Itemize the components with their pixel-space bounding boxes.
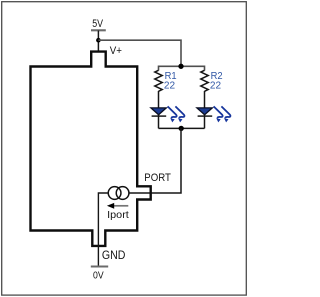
svg-text:0V: 0V	[93, 270, 104, 282]
junction dot at 5V	[96, 38, 101, 43]
LED1 light arrows	[168, 106, 185, 118]
current source U1 (two circles)	[108, 187, 121, 200]
LED2 light arrows	[214, 106, 231, 118]
svg-text:Iport: Iport	[107, 209, 129, 221]
wire 5V node to LED rail (gray net)	[98, 40, 181, 66]
wire LED1 to bottom rail	[158, 115, 160, 129]
LED D2	[197, 108, 212, 116]
ground rail 0V bar	[91, 265, 108, 267]
junction dot top rail	[178, 64, 183, 69]
5V power rail bar	[91, 29, 106, 31]
wire R1 to LED1	[158, 91, 160, 108]
svg-text:PORT: PORT	[144, 172, 171, 184]
svg-text:5V: 5V	[92, 18, 103, 30]
LED D1	[151, 108, 166, 116]
svg-text:V+: V+	[110, 45, 122, 57]
resistor R2	[201, 70, 208, 91]
wire R2 to LED2	[204, 91, 206, 108]
wire current source to GND pin	[98, 193, 108, 266]
Iport arrow	[114, 205, 129, 207]
wire bottom rail to PORT pin	[129, 128, 181, 193]
resistor R1	[155, 70, 162, 91]
wire 5V bar to V+ pin	[97, 31, 99, 52]
wire LED2 to bottom rail	[204, 115, 206, 129]
svg-text:22: 22	[210, 80, 221, 92]
junction dot bottom rail	[179, 126, 184, 131]
wire top rail of R1/R2	[159, 66, 205, 70]
wire bottom rail	[159, 127, 205, 129]
chip box outline with V+, PORT, GND pin tabs	[31, 52, 151, 246]
svg-text:GND: GND	[102, 248, 126, 262]
svg-text:22: 22	[164, 80, 175, 92]
